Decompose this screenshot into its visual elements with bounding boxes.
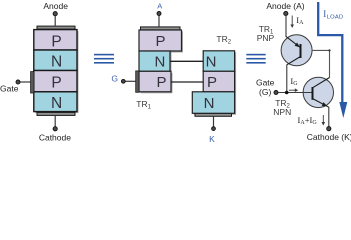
svg-text:N: N bbox=[51, 53, 62, 70]
svg-text:K: K bbox=[209, 134, 215, 144]
svg-text:NPN: NPN bbox=[273, 107, 291, 117]
svg-text:P: P bbox=[207, 74, 217, 91]
svg-text:(G): (G) bbox=[259, 87, 271, 97]
svg-text:Gate: Gate bbox=[0, 83, 19, 93]
svg-text:N: N bbox=[51, 95, 62, 112]
svg-text:G: G bbox=[111, 74, 118, 84]
svg-text:Cathode: Cathode bbox=[39, 133, 71, 143]
svg-text:Cathode (K): Cathode (K) bbox=[307, 132, 351, 142]
svg-text:P: P bbox=[156, 74, 166, 91]
svg-text:P: P bbox=[51, 33, 61, 50]
svg-text:N: N bbox=[204, 95, 215, 112]
svg-text:PNP: PNP bbox=[257, 33, 275, 43]
svg-text:N: N bbox=[206, 54, 217, 71]
svg-text:A: A bbox=[157, 1, 162, 10]
svg-text:LOAD: LOAD bbox=[327, 15, 344, 21]
svg-text:Anode (A): Anode (A) bbox=[266, 1, 304, 11]
svg-text:Gate: Gate bbox=[256, 78, 275, 88]
svg-text:N: N bbox=[154, 54, 165, 71]
svg-text:P: P bbox=[51, 74, 61, 91]
svg-text:Anode: Anode bbox=[43, 1, 68, 11]
svg-text:P: P bbox=[155, 33, 165, 50]
